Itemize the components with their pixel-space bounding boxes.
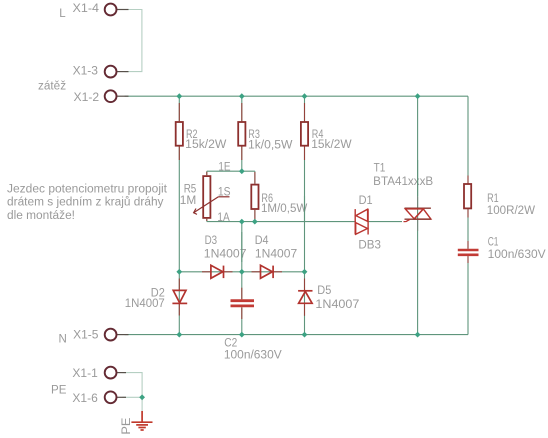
connector pin X1-4 [117,9,129,11]
junction D4/D5/R4 node [302,269,308,275]
junction top rail / R2 [176,93,182,99]
lead D3 anode [202,271,211,273]
svg-text:1N4007: 1N4007 [204,249,247,261]
svg-text:L: L [59,8,66,20]
svg-text:R1: R1 [487,193,499,205]
diode D2 [172,290,187,303]
svg-text:15k/2W: 15k/2W [311,139,351,151]
wire R5 bottom lead [206,219,208,222]
wire PE node down to ground [141,397,143,414]
junction node 1E [239,168,245,174]
junction top rail / T1 [415,93,421,99]
svg-text:R5: R5 [184,184,197,196]
lead R2 bottom [178,146,180,160]
potentiometer R5 body [203,176,210,218]
wire diac D1 to triac gate [368,221,402,223]
svg-text:100R/2W: 100R/2W [487,205,535,217]
wire T1 vertical [417,96,419,334]
lead D2 anode [178,279,180,291]
connector pin X1-3 [117,71,129,73]
resistor R1 [464,184,471,208]
lead R3 bottom [241,146,243,160]
wire R3 branch vertical [241,96,243,171]
svg-text:C1: C1 [488,237,499,249]
svg-text:X1-1: X1-1 [72,368,97,380]
junction bottom rail / D2 [176,332,182,338]
svg-text:1N4007: 1N4007 [315,299,359,311]
resistor R6 [251,185,258,209]
connector pin X1-5 [117,334,129,336]
svg-text:X1-4: X1-4 [73,3,100,15]
junction PE node [139,394,145,400]
svg-text:drátem s jedním z krajů dráhy: drátem s jedním z krajů dráhy [7,197,164,209]
junction top rail / R4 [302,93,308,99]
wire D3 row horizontal [179,271,242,273]
wire C2 branch upper [241,272,243,300]
svg-text:1A: 1A [217,212,230,224]
lead T1 MT1 [417,219,419,231]
svg-text:100n/630V: 100n/630V [488,249,546,261]
lead R3 top [241,103,243,121]
connector pin X1-1 [117,372,126,374]
svg-text:PE: PE [121,417,133,434]
wire D4 row horizontal [242,271,305,273]
lead D4 anode [252,271,261,273]
junction D3/D4/C2 node [239,269,245,275]
ground PE earth symbol [131,411,152,430]
lead T1 MT2 [417,197,419,209]
lead C1 top [467,241,469,249]
svg-text:X1-3: X1-3 [73,66,98,78]
diode D3 [211,265,224,278]
svg-text:zátěž: zátěž [38,81,66,93]
resistor R2 [176,122,183,146]
triac T1 [404,208,431,221]
wire link X1-1 to PE node [122,373,142,398]
wire D5 branch vertical [304,272,306,335]
wire mid vertical node 1A to D3/D4 node [241,222,243,272]
lead D5 cathode [304,279,306,291]
wire R5 top lead [206,171,208,175]
wire overlay R3 vertical over D3 value label [241,232,243,262]
wire R6 bottom lead [254,210,256,222]
lead C2 bottom [241,307,243,319]
svg-text:T1: T1 [374,163,386,175]
capacitor C2 [231,299,255,302]
svg-text:1N4007: 1N4007 [255,249,297,261]
svg-text:Jezdec potenciometru propojit: Jezdec potenciometru propojit [7,183,168,195]
junction bottom rail / D5 [302,332,308,338]
wire node 1A horizontal to diac [207,221,356,223]
svg-text:1E: 1E [218,161,230,173]
wire overlay T1 vertical over T1 value label [417,160,419,196]
svg-text:D1: D1 [359,195,373,207]
svg-text:X1-6: X1-6 [72,393,97,405]
lead D3 cathode [224,271,233,273]
junction bottom rail / C2 [239,332,245,338]
lead R5 pin 1A [206,219,208,221]
wire C2 branch lower [241,307,243,334]
lead R6 pin 2 [254,210,256,221]
wire right vertical upper segment to C1 top [467,96,469,250]
wire R6 top lead [254,171,256,184]
wire bottom rail from X1-5 [125,334,468,336]
lead R4 bottom [304,146,306,160]
svg-text:N: N [59,334,67,346]
lead D2 cathode [178,304,180,316]
wire R4 branch vertical [304,96,306,272]
lead R1 bottom [467,209,469,217]
wire R2/D2 branch vertical [178,96,180,334]
svg-text:PE: PE [51,384,67,396]
svg-text:15k/2W: 15k/2W [185,139,226,151]
svg-text:1N4007: 1N4007 [125,298,165,310]
lead D5 anode [304,304,306,316]
lead R2 top [178,103,180,121]
wire node 1E horizontal [207,170,255,172]
junction node 1A left [239,219,245,225]
svg-text:1M: 1M [180,195,197,207]
junction top rail / R3 [239,93,245,99]
wire link X1-6 to PE node [122,396,142,398]
svg-text:X1-2: X1-2 [74,92,100,104]
svg-text:100n/630V: 100n/630V [224,349,282,361]
wire link X1-4 to X1-3 [125,10,142,72]
svg-text:1S: 1S [218,187,231,199]
lead R6 pin 1 [254,172,256,184]
wire right vertical lower segment from C1 bottom [467,255,469,335]
svg-text:D5: D5 [317,285,331,297]
junction bottom rail / T1 [415,332,421,338]
svg-text:X1-5: X1-5 [73,330,98,342]
wire top rail from X1-2 [125,95,468,97]
lead R5 pin 1E [206,172,208,175]
wire overlay R4 vertical over R6 value label [304,196,306,221]
junction D3 row left [176,269,182,275]
lead C1 bottom [467,256,469,263]
lead R4 top [304,103,306,121]
lead C2 top [241,288,243,300]
resistor R3 [238,122,245,146]
diode D5 [298,291,312,304]
lead D4 cathode [274,271,282,273]
svg-text:1M/0,5W: 1M/0,5W [261,203,307,215]
lead R1 top [467,176,469,184]
connector pin X1-2 [117,95,129,97]
resistor R4 [301,122,308,146]
svg-text:dle montáže!: dle montáže! [7,210,75,222]
capacitor C1 [458,249,479,252]
junction node 1A / R6 [252,219,258,225]
potentiometer R5 wiper arrow and 1S stub [194,197,230,215]
svg-text:DB3: DB3 [358,239,381,251]
svg-text:BTA41xxxB: BTA41xxxB [373,176,433,188]
diode D4 [261,265,274,278]
diac D1 [355,209,368,234]
svg-text:C2: C2 [224,338,237,350]
svg-text:D3: D3 [205,235,218,247]
connector pin X1-6 [117,396,126,398]
svg-text:1k/0,5W: 1k/0,5W [248,139,293,151]
svg-text:D4: D4 [255,235,269,247]
